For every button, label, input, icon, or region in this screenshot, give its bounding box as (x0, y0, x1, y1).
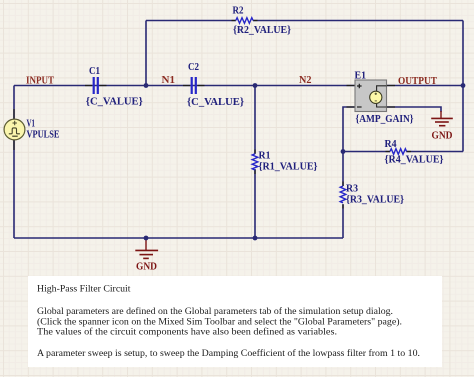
svg-text:{R3_VALUE}: {R3_VALUE} (346, 194, 404, 206)
wire: E1 input minus down to node junction (343, 107, 355, 152)
svg-text:E1: E1 (355, 70, 367, 82)
svg-text:{R4_VALUE}: {R4_VALUE} (385, 154, 444, 166)
op-amp U/E1 voltage controlled source (347, 70, 414, 125)
ground GND at output (431, 111, 453, 142)
capacitor C2 (183, 61, 244, 108)
svg-text:The values of the circuit comp: The values of the circuit components hav… (37, 327, 337, 338)
wire: N1 riser x=146 (145, 21, 147, 86)
svg-text:R4: R4 (385, 138, 397, 150)
wire: E1 output minus to GND (387, 107, 442, 112)
svg-text:C1: C1 (89, 65, 100, 77)
junction N2 (253, 83, 258, 88)
svg-text:(Click the spanner icon on the: (Click the spanner icon on the Mixed Sim… (37, 317, 402, 328)
svg-text:Global parameters are defined: Global parameters are defined on the Glo… (37, 306, 393, 317)
resistor R3 (340, 182, 404, 209)
wire: main horizontal INPUT-N1-N2 wire at y=85.5 (14, 85, 355, 87)
resistor R4 (385, 138, 444, 166)
wire: R3 rail x=343 (342, 152, 344, 239)
svg-text:N2: N2 (299, 74, 312, 86)
svg-text:GND: GND (136, 261, 157, 273)
svg-text:High-Pass Filter Circuit: High-Pass Filter Circuit (37, 285, 131, 295)
svg-text:OUTPUT: OUTPUT (398, 75, 438, 87)
wire: bottom rail y=238 (14, 237, 343, 239)
resistor R1 (252, 150, 317, 175)
svg-text:{R2_VALUE}: {R2_VALUE} (233, 24, 291, 36)
wire: left rail INPUT from (14,85.5) down to bottom rail (13, 86, 15, 239)
svg-text:GND: GND (432, 130, 453, 142)
svg-text:{R1_VALUE}: {R1_VALUE} (259, 161, 318, 173)
wire: R4 horizontal wire y=151.5 (343, 151, 463, 153)
svg-text:A parameter sweep is setup, to: A parameter sweep is setup, to sweep the… (37, 348, 420, 359)
svg-text:{C_VALUE}: {C_VALUE} (86, 96, 143, 108)
svg-text:INPUT: INPUT (26, 75, 55, 87)
capacitor C1 (85, 65, 143, 108)
wire: right rail x=463 from top wire to R4 (462, 21, 464, 152)
junction OUTPUT right rail (461, 83, 466, 88)
wire: R1 rail x=255 (254, 86, 256, 239)
svg-text:R2: R2 (233, 5, 244, 17)
svg-text:{C_VALUE}: {C_VALUE} (187, 96, 244, 108)
wire: OUTPUT wire y=85.5 (387, 85, 464, 87)
svg-text:C2: C2 (188, 61, 199, 73)
svg-text:{AMP_GAIN}: {AMP_GAIN} (356, 113, 414, 125)
text note block (28, 276, 442, 367)
junction R1 bottom (253, 236, 258, 241)
resistor R2 (232, 5, 292, 37)
junction R3/R4 node (341, 149, 346, 154)
junction N1 (144, 83, 149, 88)
svg-text:N1: N1 (162, 74, 176, 86)
junction GND bottom (144, 236, 149, 241)
ground GND at bottom rail (135, 238, 158, 273)
voltage source V1 VPULSE (4, 109, 59, 150)
svg-text:VPULSE: VPULSE (27, 128, 60, 140)
wire: top feedback wire y=20.5 (146, 20, 463, 22)
